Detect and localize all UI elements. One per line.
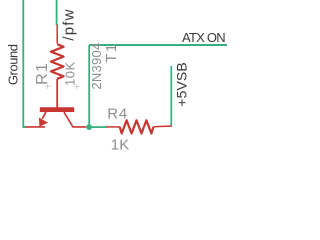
transistor T1 emitter arrow [39,118,48,127]
svg-text:R1: R1 [34,62,51,85]
transistor T1 emitter pin wire [26,126,46,128]
svg-text:Ground: Ground [5,44,20,85]
resistor R4 zigzag [120,120,154,133]
wire Ground vertical [23,0,26,127]
wire +5VSB vertical [170,66,172,127]
svg-text:R4: R4 [107,106,128,123]
wire collector net vertical [88,45,90,127]
resistor R1 zigzag [51,44,64,79]
svg-text:/pfw: /pfw [61,8,78,40]
resistor R4 left lead [106,126,120,128]
resistor R1 top lead [56,25,58,44]
svg-text:+5VSB: +5VSB [174,62,190,106]
pin cross near R1 left [45,84,50,89]
wire junction to R4 [89,126,107,128]
pin cross near 10K [74,84,79,89]
svg-text:10K: 10K [62,61,77,86]
transistor T1 emitter diagonal [42,112,46,119]
svg-text:ATX ON: ATX ON [182,30,225,45]
resistor R1 bottom lead [56,79,58,108]
svg-text:T1: T1 [103,42,120,63]
resistor R4 right lead [153,125,171,128]
svg-text:1K: 1K [111,136,130,150]
wire ATX ON horizontal [89,44,227,46]
junction dot [86,124,92,130]
transistor T1 collector lead [64,112,86,127]
transistor T1 bar [40,107,74,112]
wire /pfw stub [56,0,58,25]
